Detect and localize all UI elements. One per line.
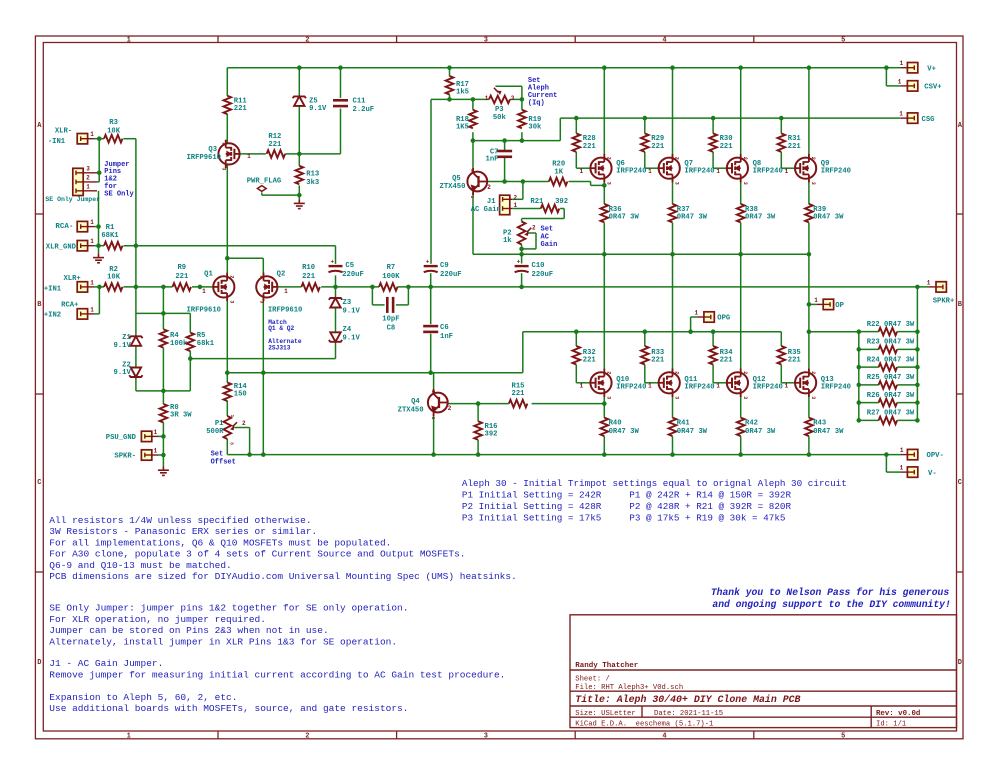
wire Q11 source to R41 — [672, 394, 674, 418]
svg-text:0R47 3W: 0R47 3W — [745, 428, 776, 436]
svg-text:D: D — [958, 659, 962, 667]
wire R4 leads — [162, 313, 164, 329]
wire ladder row R23 — [859, 348, 879, 350]
resistor R23 — [879, 346, 897, 354]
svg-text:221: 221 — [720, 357, 734, 365]
svg-text:1: 1 — [513, 202, 517, 209]
junction at 604,254 — [602, 252, 607, 257]
wire R17 leads — [449, 68, 451, 76]
wire C5 top drop — [335, 246, 337, 264]
svg-text:SPKR-: SPKR- — [114, 453, 136, 461]
wire PSU_GND pin — [157, 435, 163, 437]
svg-text:1k5: 1k5 — [456, 88, 469, 96]
wire ladder row R25 — [859, 384, 879, 386]
junction at 809,68 — [807, 65, 812, 70]
resistor R36 — [601, 204, 609, 222]
svg-text:AC: AC — [541, 233, 549, 241]
wire OPG tap — [690, 317, 692, 332]
wire C11 leads — [340, 68, 342, 98]
connector OP — [823, 299, 833, 309]
wire RCA+ jog — [93, 313, 99, 315]
svg-text:P2 Initial Setting = 428R: P2 Initial Setting = 428R P2 @ 428R + R2… — [462, 501, 792, 512]
svg-text:221: 221 — [302, 273, 316, 281]
wire Q5 collector — [472, 141, 474, 172]
junction at 741,68 — [738, 65, 743, 70]
ground at SPKR- — [158, 466, 169, 475]
wire input jumper column lower — [98, 191, 100, 246]
wire Z5 leads — [298, 68, 300, 97]
resistor R27 — [879, 417, 897, 425]
junction at 672,68 — [670, 65, 675, 70]
svg-text:10K: 10K — [107, 274, 121, 282]
svg-text:R23 0R47 3W: R23 0R47 3W — [867, 339, 915, 347]
svg-text:2: 2 — [532, 225, 536, 232]
wire CSV+ drop — [885, 68, 887, 86]
wire trimpot node line — [431, 98, 489, 100]
junction at 163,313 — [161, 311, 166, 316]
svg-text:Remove jumper for measuring in: Remove jumper for measuring initial curr… — [49, 669, 505, 680]
junction at 886,455 — [884, 452, 889, 457]
svg-text:3: 3 — [484, 733, 488, 741]
junction at 473,141 — [471, 138, 476, 143]
wire R19 top lead — [521, 99, 523, 109]
svg-text:3W Resistors - Panasonic ERX s: 3W Resistors - Panasonic ERX series or s… — [49, 526, 317, 537]
resistor R31 — [778, 133, 786, 151]
wire PWR_FLAG stem — [261, 192, 263, 195]
svg-text:R43: R43 — [813, 420, 826, 428]
wire R29 to Q7 gate — [644, 152, 646, 168]
wire Z2 bottom lead — [135, 377, 137, 391]
wire R15 to Q10 source — [532, 403, 605, 405]
junction at 522,141 — [520, 138, 525, 143]
svg-text:220uF: 220uF — [342, 271, 364, 279]
svg-text:IRFP240: IRFP240 — [616, 168, 646, 176]
svg-text:RCA+: RCA+ — [61, 302, 78, 310]
svg-text:IRFP240: IRFP240 — [821, 384, 851, 392]
resistor R37 — [669, 204, 677, 222]
svg-text:Id: 1/1: Id: 1/1 — [876, 720, 906, 728]
svg-text:68K1: 68K1 — [101, 232, 119, 240]
resistor R5 — [187, 333, 195, 351]
junction at 431,373 — [428, 370, 433, 375]
wire SPKR- pin — [157, 454, 163, 456]
resistor R11 — [224, 96, 232, 114]
junction ladder right row 5 — [915, 400, 920, 405]
svg-text:2: 2 — [448, 405, 452, 412]
connector V- — [907, 467, 917, 477]
svg-text:XLR-: XLR- — [55, 127, 72, 135]
wire Q3 gate to R12 — [240, 153, 266, 155]
svg-text:1: 1 — [694, 310, 698, 317]
wire P2 bottom stub — [521, 245, 523, 255]
wire R33 to Q11 gate — [644, 365, 646, 383]
svg-text:0R47 3W: 0R47 3W — [745, 214, 776, 222]
svg-text:0R47 3W: 0R47 3W — [813, 428, 844, 436]
connector SPKR- — [141, 450, 151, 460]
svg-text:+IN2: +IN2 — [44, 312, 61, 320]
resistor R25 — [879, 381, 897, 389]
wire R3 drop — [123, 138, 135, 140]
junction ladder left row 4 — [857, 383, 862, 388]
junction at 450,99 — [447, 97, 452, 102]
wire C7 bottom stub — [504, 157, 506, 181]
title block — [570, 615, 957, 728]
resistor R28 — [573, 133, 581, 151]
junction at 450,68 — [447, 65, 452, 70]
svg-text:1: 1 — [814, 297, 818, 304]
svg-text:IRFP240: IRFP240 — [753, 168, 783, 176]
svg-text:+: + — [517, 258, 521, 265]
svg-text:R25 0R47 3W: R25 0R47 3W — [867, 374, 915, 382]
wire ladder right rail — [916, 287, 918, 421]
junction at 163,436 — [161, 434, 166, 439]
svg-text:3: 3 — [606, 182, 612, 185]
svg-text:IRFP9610: IRFP9610 — [268, 307, 303, 315]
wire ladder left rail — [858, 332, 860, 421]
svg-text:3k3: 3k3 — [306, 179, 319, 187]
wire Q4 base line — [448, 403, 509, 405]
resistor R16 — [474, 421, 482, 439]
wire R34 to Q12 gate — [712, 365, 714, 383]
svg-text:R3: R3 — [109, 119, 118, 127]
resistor R43 — [805, 418, 813, 436]
svg-text:220uF: 220uF — [440, 271, 462, 279]
junction at 478,455 — [476, 452, 481, 457]
junction at 473,99 — [471, 97, 476, 102]
svg-text:9.1V: 9.1V — [114, 369, 132, 377]
svg-text:KiCad E.D.A. eeschema (5.1.7): KiCad E.D.A. eeschema (5.1.7)-1 — [575, 720, 713, 728]
svg-text:R41: R41 — [677, 420, 691, 428]
wire ladder row R22 — [859, 331, 879, 333]
wire Z1 top lead — [135, 313, 137, 336]
svg-text:1: 1 — [154, 429, 158, 436]
junction ladder right row 3 — [915, 365, 920, 370]
wire R34 top lead — [712, 332, 714, 346]
wire Q8 source to R38 — [740, 179, 742, 204]
wire P2 wiper loop — [527, 232, 536, 234]
wire R9 to Q1 gate — [192, 286, 214, 288]
junction ladder left row 6 — [857, 418, 862, 423]
wire OP pin tap — [809, 303, 817, 305]
wire P3 wiper elbow — [496, 85, 522, 87]
svg-text:R22 0R47 3W: R22 0R47 3W — [867, 321, 915, 329]
svg-text:50k: 50k — [493, 114, 507, 122]
wire R21 to P2 — [560, 208, 564, 210]
wire V- drop — [885, 455, 887, 473]
svg-text:1: 1 — [927, 279, 931, 286]
wire C7 top stub — [504, 141, 506, 151]
junction ladder left row 5 — [857, 400, 862, 405]
wire input jumper column upper — [98, 139, 100, 182]
svg-text:1: 1 — [785, 168, 789, 175]
mosfet Q9 — [795, 154, 816, 182]
wire output rail left — [321, 286, 379, 288]
svg-text:2: 2 — [305, 37, 309, 45]
wire Q12 source to R42 — [740, 394, 742, 418]
svg-text:3: 3 — [606, 396, 612, 399]
svg-text:For all implementations, Q6 &: For all implementations, Q6 & Q10 MOSFET… — [49, 537, 391, 548]
zener Z4 — [329, 340, 342, 342]
wire ground line to C5 — [93, 245, 104, 247]
svg-text:2.2uF: 2.2uF — [353, 106, 375, 114]
wire C8 left loop — [371, 287, 373, 305]
junction at 604,455 — [602, 452, 607, 457]
svg-text:J1: J1 — [487, 198, 496, 206]
wire Q2 drain column — [262, 298, 264, 455]
svg-text:P1 Initial Setting = 242R: P1 Initial Setting = 242R P1 @ 242R + R1… — [462, 490, 792, 501]
svg-text:Size: USLetter: Size: USLetter — [575, 710, 635, 718]
wire R2 to R9 — [123, 286, 172, 288]
zener Z1 — [129, 336, 142, 338]
svg-text:5: 5 — [841, 37, 845, 45]
junction at 478,404 — [476, 401, 481, 406]
svg-text:0R47 3W: 0R47 3W — [609, 214, 640, 222]
svg-text:1: 1 — [898, 78, 902, 85]
resistor R4 — [160, 329, 168, 347]
svg-text:Offset: Offset — [211, 458, 236, 466]
svg-text:IRFP240: IRFP240 — [753, 384, 783, 392]
svg-text:0R47 3W: 0R47 3W — [813, 214, 844, 222]
junction at 227,373 — [225, 370, 230, 375]
mosfet Q7 — [659, 154, 680, 182]
wire sense bus — [473, 253, 809, 255]
wire R19 bottom lead — [521, 132, 523, 140]
junction at 886,68 — [884, 65, 889, 70]
junction at 299,68 — [297, 65, 302, 70]
junction at 522,287 — [519, 285, 524, 290]
svg-text:1: 1 — [469, 196, 475, 199]
svg-text:R26 0R47 3W: R26 0R47 3W — [867, 392, 915, 400]
svg-text:File: RHT Aleph3+ V0d.sch: File: RHT Aleph3+ V0d.sch — [575, 684, 683, 692]
wire Q5 emitter column — [472, 192, 474, 255]
svg-text:1: 1 — [900, 465, 904, 472]
svg-text:P1: P1 — [215, 420, 224, 428]
junction at 741,254 — [738, 252, 743, 257]
svg-text:9.1V: 9.1V — [343, 335, 361, 343]
potentiometer P1 — [224, 416, 232, 439]
svg-text:XLR_GND: XLR_GND — [46, 243, 77, 251]
wire diff pair source tie — [227, 257, 263, 259]
connector SPKR+ — [936, 282, 946, 292]
resistor R9 — [173, 283, 191, 291]
svg-text:1: 1 — [229, 415, 235, 418]
svg-text:1: 1 — [430, 417, 436, 420]
junction at 505,141 — [502, 138, 507, 143]
resistor R19 — [518, 110, 526, 128]
svg-text:3: 3 — [484, 37, 488, 45]
capacitor C6 — [423, 325, 438, 328]
svg-text:Title: Aleph 30/40+ DIY Clone: Title: Aleph 30/40+ DIY Clone Main PCB — [575, 694, 800, 705]
svg-text:Use additional boards with MOS: Use additional boards with MOSFETs, sour… — [49, 703, 408, 714]
wire Z3-Z4 link — [335, 307, 337, 332]
svg-text:2SJ313: 2SJ313 — [268, 344, 291, 351]
svg-text:1: 1 — [485, 95, 489, 102]
wire gate bus 2 elbow — [522, 332, 524, 373]
svg-text:2: 2 — [606, 371, 612, 374]
svg-text:1: 1 — [90, 279, 94, 286]
wire C5 bottom stub — [335, 275, 337, 287]
junction at 163,391 — [161, 389, 166, 394]
svg-text:3: 3 — [674, 182, 680, 185]
svg-text:3: 3 — [86, 165, 90, 172]
svg-text:1K5: 1K5 — [456, 124, 469, 132]
mosfet Q10 — [590, 369, 611, 397]
wire left drop to C9 — [430, 99, 432, 263]
junction at 190,359 — [188, 356, 193, 361]
svg-text:1: 1 — [900, 447, 904, 454]
wire ladder row R26 — [859, 402, 879, 404]
junction at 99,173 — [97, 171, 102, 176]
svg-text:For A30 clone, populate 3 of 4: For A30 clone, populate 3 of 4 sets of C… — [49, 549, 465, 560]
svg-text:IRFP240: IRFP240 — [684, 384, 714, 392]
svg-text:1: 1 — [90, 219, 94, 226]
wire C8 right loop — [407, 287, 409, 305]
resistor R26 — [879, 399, 897, 407]
junction ladder right row 4 — [915, 383, 920, 388]
svg-text:2: 2 — [742, 371, 748, 374]
svg-text:3R 3W: 3R 3W — [170, 412, 192, 420]
capacitor C9 — [424, 265, 438, 267]
connector CSV+ — [907, 81, 917, 91]
resistor R2 — [104, 283, 122, 291]
resistor R24 — [879, 363, 897, 371]
svg-text:For XLR operation, no jumper r: For XLR operation, no jumper required. — [49, 614, 266, 625]
resistor R39 — [805, 204, 813, 222]
mosfet Q6 — [590, 154, 611, 182]
svg-text:2: 2 — [674, 157, 680, 160]
wire R29 top lead — [644, 118, 646, 133]
junction at 522,99 — [520, 97, 525, 102]
junction at 672,455 — [670, 452, 675, 457]
resistor R42 — [737, 418, 745, 436]
svg-text:2: 2 — [487, 184, 491, 191]
resistor R33 — [641, 346, 649, 364]
resistor R10 — [301, 283, 319, 291]
svg-text:1: 1 — [716, 383, 720, 390]
svg-text:2: 2 — [742, 157, 748, 160]
svg-text:R42: R42 — [745, 420, 758, 428]
svg-text:C: C — [958, 479, 962, 487]
wire C6 bottom stub — [430, 334, 432, 373]
svg-text:1: 1 — [127, 37, 131, 45]
svg-text:3: 3 — [674, 396, 680, 399]
resistor R12 — [267, 150, 285, 158]
wire zener bottom tie — [136, 390, 190, 392]
capacitor C8 — [386, 297, 389, 313]
wire R30 top lead — [712, 118, 714, 133]
svg-text:R21: R21 — [530, 198, 544, 206]
svg-text:Thank you to Nelson Pass for h: Thank you to Nelson Pass for his generou… — [711, 587, 950, 598]
svg-text:0R47 3W: 0R47 3W — [609, 428, 640, 436]
svg-text:3: 3 — [742, 396, 748, 399]
junction at 372,287 — [370, 285, 375, 290]
resistor R1 — [104, 242, 122, 250]
svg-text:R7: R7 — [387, 264, 396, 272]
svg-text:Expansion to Aleph 5, 60, 2, e: Expansion to Aleph 5, 60, 2, etc. — [49, 692, 237, 703]
svg-text:R10: R10 — [302, 264, 315, 272]
resistor R18 — [469, 110, 477, 128]
svg-text:220uF: 220uF — [532, 271, 554, 279]
junction at 713,118 — [711, 116, 716, 121]
resistor R29 — [641, 133, 649, 151]
svg-text:C: C — [37, 479, 41, 487]
svg-text:V-: V- — [928, 470, 937, 478]
wire Q6 drain column — [603, 68, 605, 158]
svg-text:3: 3 — [810, 396, 816, 399]
junction ladder left row 3 — [857, 365, 862, 370]
svg-text:(Iq): (Iq) — [528, 100, 545, 108]
svg-text:2: 2 — [810, 371, 816, 374]
wire R18 bottom lead — [472, 132, 474, 140]
svg-text:221: 221 — [720, 143, 734, 151]
junction at 434,455 — [431, 452, 436, 457]
svg-text:3: 3 — [810, 182, 816, 185]
wire R32 to Q10 gate — [575, 365, 577, 383]
wire P1 wiper loop — [234, 427, 249, 429]
wire feedback line to Z4 — [190, 358, 335, 360]
connector XLR+ / +IN1 — [77, 282, 87, 292]
svg-text:2: 2 — [228, 275, 234, 278]
wire Q9 drain column — [808, 68, 810, 158]
junction at 340,68 — [338, 65, 343, 70]
wire Q9 source to R39 — [808, 179, 810, 204]
svg-text:Z4: Z4 — [343, 326, 352, 334]
resistor R38 — [737, 204, 745, 222]
svg-text:ZTX450: ZTX450 — [440, 183, 466, 191]
capacitor C7 — [497, 150, 512, 153]
junction at 200,287 — [198, 285, 203, 290]
resistor R17 — [446, 76, 454, 94]
connector CSG — [907, 113, 917, 123]
connector V+ — [907, 63, 917, 73]
wire gate bus 2 — [523, 331, 782, 333]
wire R28 top lead — [575, 118, 577, 133]
svg-text:SE Only: SE Only — [104, 190, 134, 198]
resistor R15 — [509, 400, 527, 408]
svg-text:30k: 30k — [528, 124, 542, 132]
svg-text:SE Only Jumper: SE Only Jumper — [45, 196, 100, 203]
svg-text:1: 1 — [648, 383, 652, 390]
connector XLR_GND — [77, 241, 87, 251]
svg-text:IRFP9610: IRFP9610 — [186, 307, 221, 315]
wire Q11 drain column — [672, 254, 674, 372]
wire R20 to Q6 source — [569, 181, 591, 183]
svg-text:Q3: Q3 — [208, 146, 217, 154]
wire Q4 collector — [433, 373, 435, 395]
svg-text:Sheet: /: Sheet: / — [575, 675, 610, 683]
connector RCA- — [77, 221, 87, 231]
wire R4 column drop — [162, 287, 164, 314]
wire Q7 drain column — [672, 68, 674, 158]
junction at 576,118 — [574, 116, 579, 121]
svg-text:Z3: Z3 — [343, 299, 352, 307]
svg-text:2: 2 — [305, 733, 309, 741]
svg-text:0R47 3W: 0R47 3W — [677, 428, 708, 436]
svg-text:ZTX450: ZTX450 — [398, 407, 424, 415]
wire R31 to Q9 gate — [780, 152, 782, 168]
svg-text:IRFP240: IRFP240 — [684, 168, 714, 176]
svg-text:1K: 1K — [554, 169, 563, 177]
junction at 99,287 — [97, 285, 102, 290]
wire R16 leads — [477, 404, 479, 422]
svg-text:1: 1 — [580, 383, 584, 390]
wire Q1 drain column — [226, 298, 228, 383]
svg-text:P2: P2 — [503, 229, 512, 237]
potentiometer P2 — [518, 222, 526, 245]
svg-text:1: 1 — [648, 168, 652, 175]
svg-text:3: 3 — [469, 169, 475, 172]
svg-text:J1 - AC Gain Jumper.: J1 - AC Gain Jumper. — [49, 658, 163, 669]
